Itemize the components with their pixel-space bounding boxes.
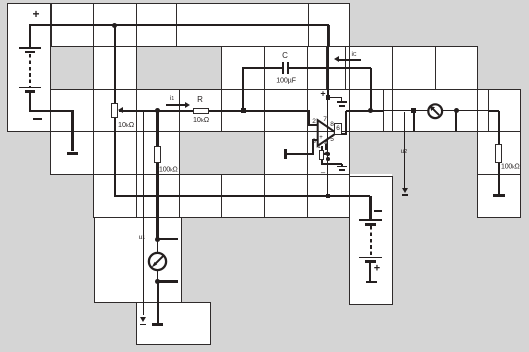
wire: C left lead: [242, 67, 282, 69]
node: bus junction (square): [326, 194, 331, 198]
battery B1 plus plate top: [19, 47, 42, 49]
node: meter right dot: [454, 108, 459, 113]
wire: supply riser through op-amp: [327, 98, 328, 196]
+supply cell short plate: [339, 105, 345, 108]
potentiometer P1 wiper arrowhead: [118, 107, 123, 113]
wire: ground riser left: [71, 111, 73, 152]
battery B1 minus plate top: [25, 51, 35, 54]
wire: meter left terminal stub: [413, 111, 415, 132]
node: meter left square dot: [411, 108, 416, 113]
hairline bounding boxes: [50, 174, 350, 175]
node: output junction dot: [368, 108, 373, 113]
wire: 100k left leads: [156, 111, 158, 146]
pin labels: [312, 119, 316, 126]
wire: +supply arm: [328, 97, 342, 99]
pin6 output box: [334, 123, 342, 134]
label: - supply: [321, 169, 325, 177]
label i1: [169, 96, 173, 103]
wire: pot bottom down to bus: [114, 118, 116, 196]
ground (bottom, under u1 meter): [152, 323, 163, 326]
wire: battery2 top riser: [369, 196, 371, 219]
wire: pin2 riser from input rail: [308, 111, 310, 126]
wire: down to bottom ground: [157, 282, 159, 325]
battery B1 plus plate bottom: [19, 87, 42, 89]
offset pot wiper arrow: [324, 153, 330, 155]
node: u1 meter top dot: [155, 237, 160, 242]
+supply cell long plate: [337, 101, 348, 103]
wire: offset pot bottom to -supply: [321, 160, 323, 165]
wire: bus rail to battery2: [114, 195, 371, 197]
wire: battery+ to top rail: [29, 25, 31, 47]
wire: u1 meter bottom terminal stub: [158, 280, 178, 282]
ground (op-amp +input), vertical bar: [284, 149, 287, 159]
wire: top rail: [29, 24, 329, 26]
label C: [282, 52, 288, 60]
+supply cell stem: [341, 98, 343, 102]
ground (left battery): [67, 152, 79, 155]
wire: pin1 stub: [321, 146, 323, 150]
battery B1 minus plate bottom: [25, 90, 35, 93]
ground (right resistor): [493, 194, 505, 197]
wire: drop to 100k right: [498, 111, 500, 144]
potentiometer P1 body: [111, 103, 118, 118]
label 10k (pot): [118, 121, 134, 130]
-supply stem: [341, 164, 343, 166]
label battery2 -: [374, 210, 382, 212]
label ic: [351, 52, 356, 59]
ground (battery2): [366, 281, 377, 283]
wire: output from pin6 box: [341, 133, 348, 135]
label 100k (right): [501, 163, 520, 170]
resistor R3 body (100k right): [495, 144, 502, 163]
node: u1 meter bottom dot: [155, 279, 160, 284]
battery B2 plate long top: [359, 219, 382, 221]
label 100k (left): [159, 166, 178, 173]
voltage arrow u1: [143, 112, 144, 316]
wire: battery- down: [29, 92, 31, 111]
wire: feedback drop to output node: [370, 68, 372, 111]
wire: through u1 meter (thin): [157, 239, 159, 281]
battery B1 dashed cells: [29, 54, 31, 88]
node: supply top junction (square): [326, 95, 330, 99]
meter M2 (output, right): [427, 103, 444, 120]
capacitor C plates: [282, 62, 284, 74]
wire: pin3 lead: [312, 139, 318, 141]
battery B2 plate long bottom: [359, 257, 382, 259]
wire: top rail drop to op-amp supply node: [327, 25, 329, 97]
label: + supply: [320, 89, 325, 98]
battery B2 plate short bottom: [365, 260, 376, 263]
op-amp U1 triangle: [315, 117, 340, 149]
resistor R1 body: [193, 108, 209, 113]
wire: battery- to ground riser: [29, 110, 74, 112]
wire: battery2 bottom lead: [369, 263, 371, 282]
capacitor C1 riser: [242, 68, 244, 111]
wire: meter right terminal stub: [455, 111, 457, 132]
label u1: [139, 235, 145, 242]
label 10k (R): [193, 116, 209, 125]
label 100uF: [276, 77, 296, 84]
wire: pin4 stub: [325, 144, 327, 150]
wire: pin3 drop to ground arm: [312, 140, 314, 154]
wire: through meter section (thin): [384, 110, 488, 111]
wire: pin2 lead: [308, 124, 318, 126]
wire: output rail to right: [346, 110, 384, 112]
current arrow i1: [166, 104, 187, 106]
node A: junction dot at 100k top: [155, 108, 160, 113]
label u2: [400, 149, 406, 156]
white canvas regions: [7, 3, 349, 46]
-supply cell short plate: [339, 169, 345, 172]
wire: u1 meter top terminal stub: [158, 238, 178, 240]
node: junction dot top rail / pot riser: [112, 23, 117, 28]
wire: pot wiper to main node: [119, 110, 158, 112]
resistor R2 body (100k left): [154, 146, 161, 163]
wire: 100k right bottom lead: [498, 163, 500, 196]
wire: C right lead to output drop: [289, 67, 371, 69]
wire: main input node across R to op-amp: [156, 110, 310, 112]
battery B2 dashed cells: [370, 226, 372, 256]
wire: ground arm: [286, 153, 314, 155]
-supply cell long plate: [337, 166, 347, 168]
meter M1 (u1, bottom): [147, 251, 168, 272]
current arrow ic: [339, 59, 361, 61]
offset pot body: [319, 150, 324, 159]
label battery1 -: [33, 118, 42, 120]
label battery2 +: [374, 264, 380, 275]
battery B2 plate short top: [365, 223, 376, 226]
voltage arrow u2: [404, 112, 405, 189]
node: pin5 junction dot: [326, 157, 330, 161]
node: junction dot at C riser (square): [241, 108, 246, 113]
label R: [197, 96, 203, 104]
node: wiper junction dot: [326, 152, 330, 156]
label battery1 +: [32, 8, 39, 20]
wire: pot riser: [114, 24, 116, 103]
